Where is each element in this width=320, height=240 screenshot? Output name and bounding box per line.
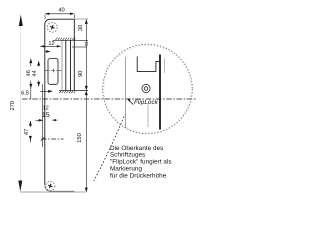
dim 44 line	[38, 61, 40, 87]
svg-text:270: 270	[10, 101, 16, 111]
ext line y19 right	[75, 18, 88, 20]
svg-text:47: 47	[24, 129, 30, 135]
centerline main	[22, 98, 197, 100]
detail screw	[142, 84, 150, 92]
svg-text:150: 150	[77, 133, 83, 143]
detail circle ring	[103, 44, 193, 134]
detail plate right edge	[159, 55, 161, 130]
cutout arrow top (44 pointer)	[45, 51, 49, 53]
screw hole top	[47, 22, 57, 32]
detail cutout notch	[137, 57, 160, 72]
lip fold line 3	[70, 40, 72, 91]
svg-text:12: 12	[48, 41, 54, 47]
lip bottom hatch	[59, 91, 75, 93]
svg-text:90: 90	[78, 71, 84, 77]
svg-text:15: 15	[42, 112, 50, 119]
plate outline left/top/right	[45, 19, 75, 184]
dim 15 line seg B	[52, 119, 57, 121]
plate outline bottom	[45, 185, 75, 192]
dim 40 line	[45, 13, 74, 15]
svg-text:44: 44	[32, 70, 38, 76]
latch cutout	[48, 59, 58, 85]
svg-text:30: 30	[78, 25, 84, 31]
dim 40 arrows	[45, 13, 74, 16]
centerline handle height	[42, 138, 64, 140]
leader dashed line	[94, 117, 124, 182]
bottom ext line y192	[20, 191, 86, 193]
dim 47 tick	[41, 137, 45, 140]
note text block	[110, 145, 172, 180]
lip bottom edge + ext to dim column	[59, 90, 88, 92]
screw hole bottom	[46, 181, 55, 190]
FlipLock pointer arrow	[127, 98, 130, 102]
lip fold line 1	[61, 40, 63, 91]
svg-text:40: 40	[58, 8, 64, 14]
cutout arrow bottom (6.5 pointer)	[40, 90, 50, 92]
lip top hatch	[56, 38, 76, 40]
detail fold line below text	[147, 105, 149, 128]
right dim arrows	[85, 19, 88, 192]
svg-text:für die Drückerhöhe: für die Drückerhöhe	[110, 172, 167, 179]
svg-text:6,5: 6,5	[21, 90, 29, 96]
svg-text:FlipLock: FlipLock	[134, 99, 159, 106]
dim 12 top arrows	[40, 45, 61, 47]
cutout center mark	[45, 70, 62, 72]
dim 270 arrows	[18, 15, 23, 192]
dim 270 line	[20, 24, 22, 184]
lip top edge	[53, 39, 89, 41]
dim 40 ext lines	[45, 15, 74, 19]
right dim column line	[85, 20, 87, 193]
detail edge stub	[163, 59, 165, 74]
dim 15 line seg A	[36, 119, 41, 121]
lip fold line 2	[65, 40, 67, 91]
dim 47 line	[29, 121, 31, 143]
dim 12 top line	[40, 45, 61, 47]
svg-text:12: 12	[42, 106, 48, 112]
detail plate left edge	[125, 57, 127, 129]
ext line y47 right	[72, 46, 87, 48]
dim 47 extension line	[42, 84, 44, 147]
dim 46 line	[30, 59, 32, 100]
